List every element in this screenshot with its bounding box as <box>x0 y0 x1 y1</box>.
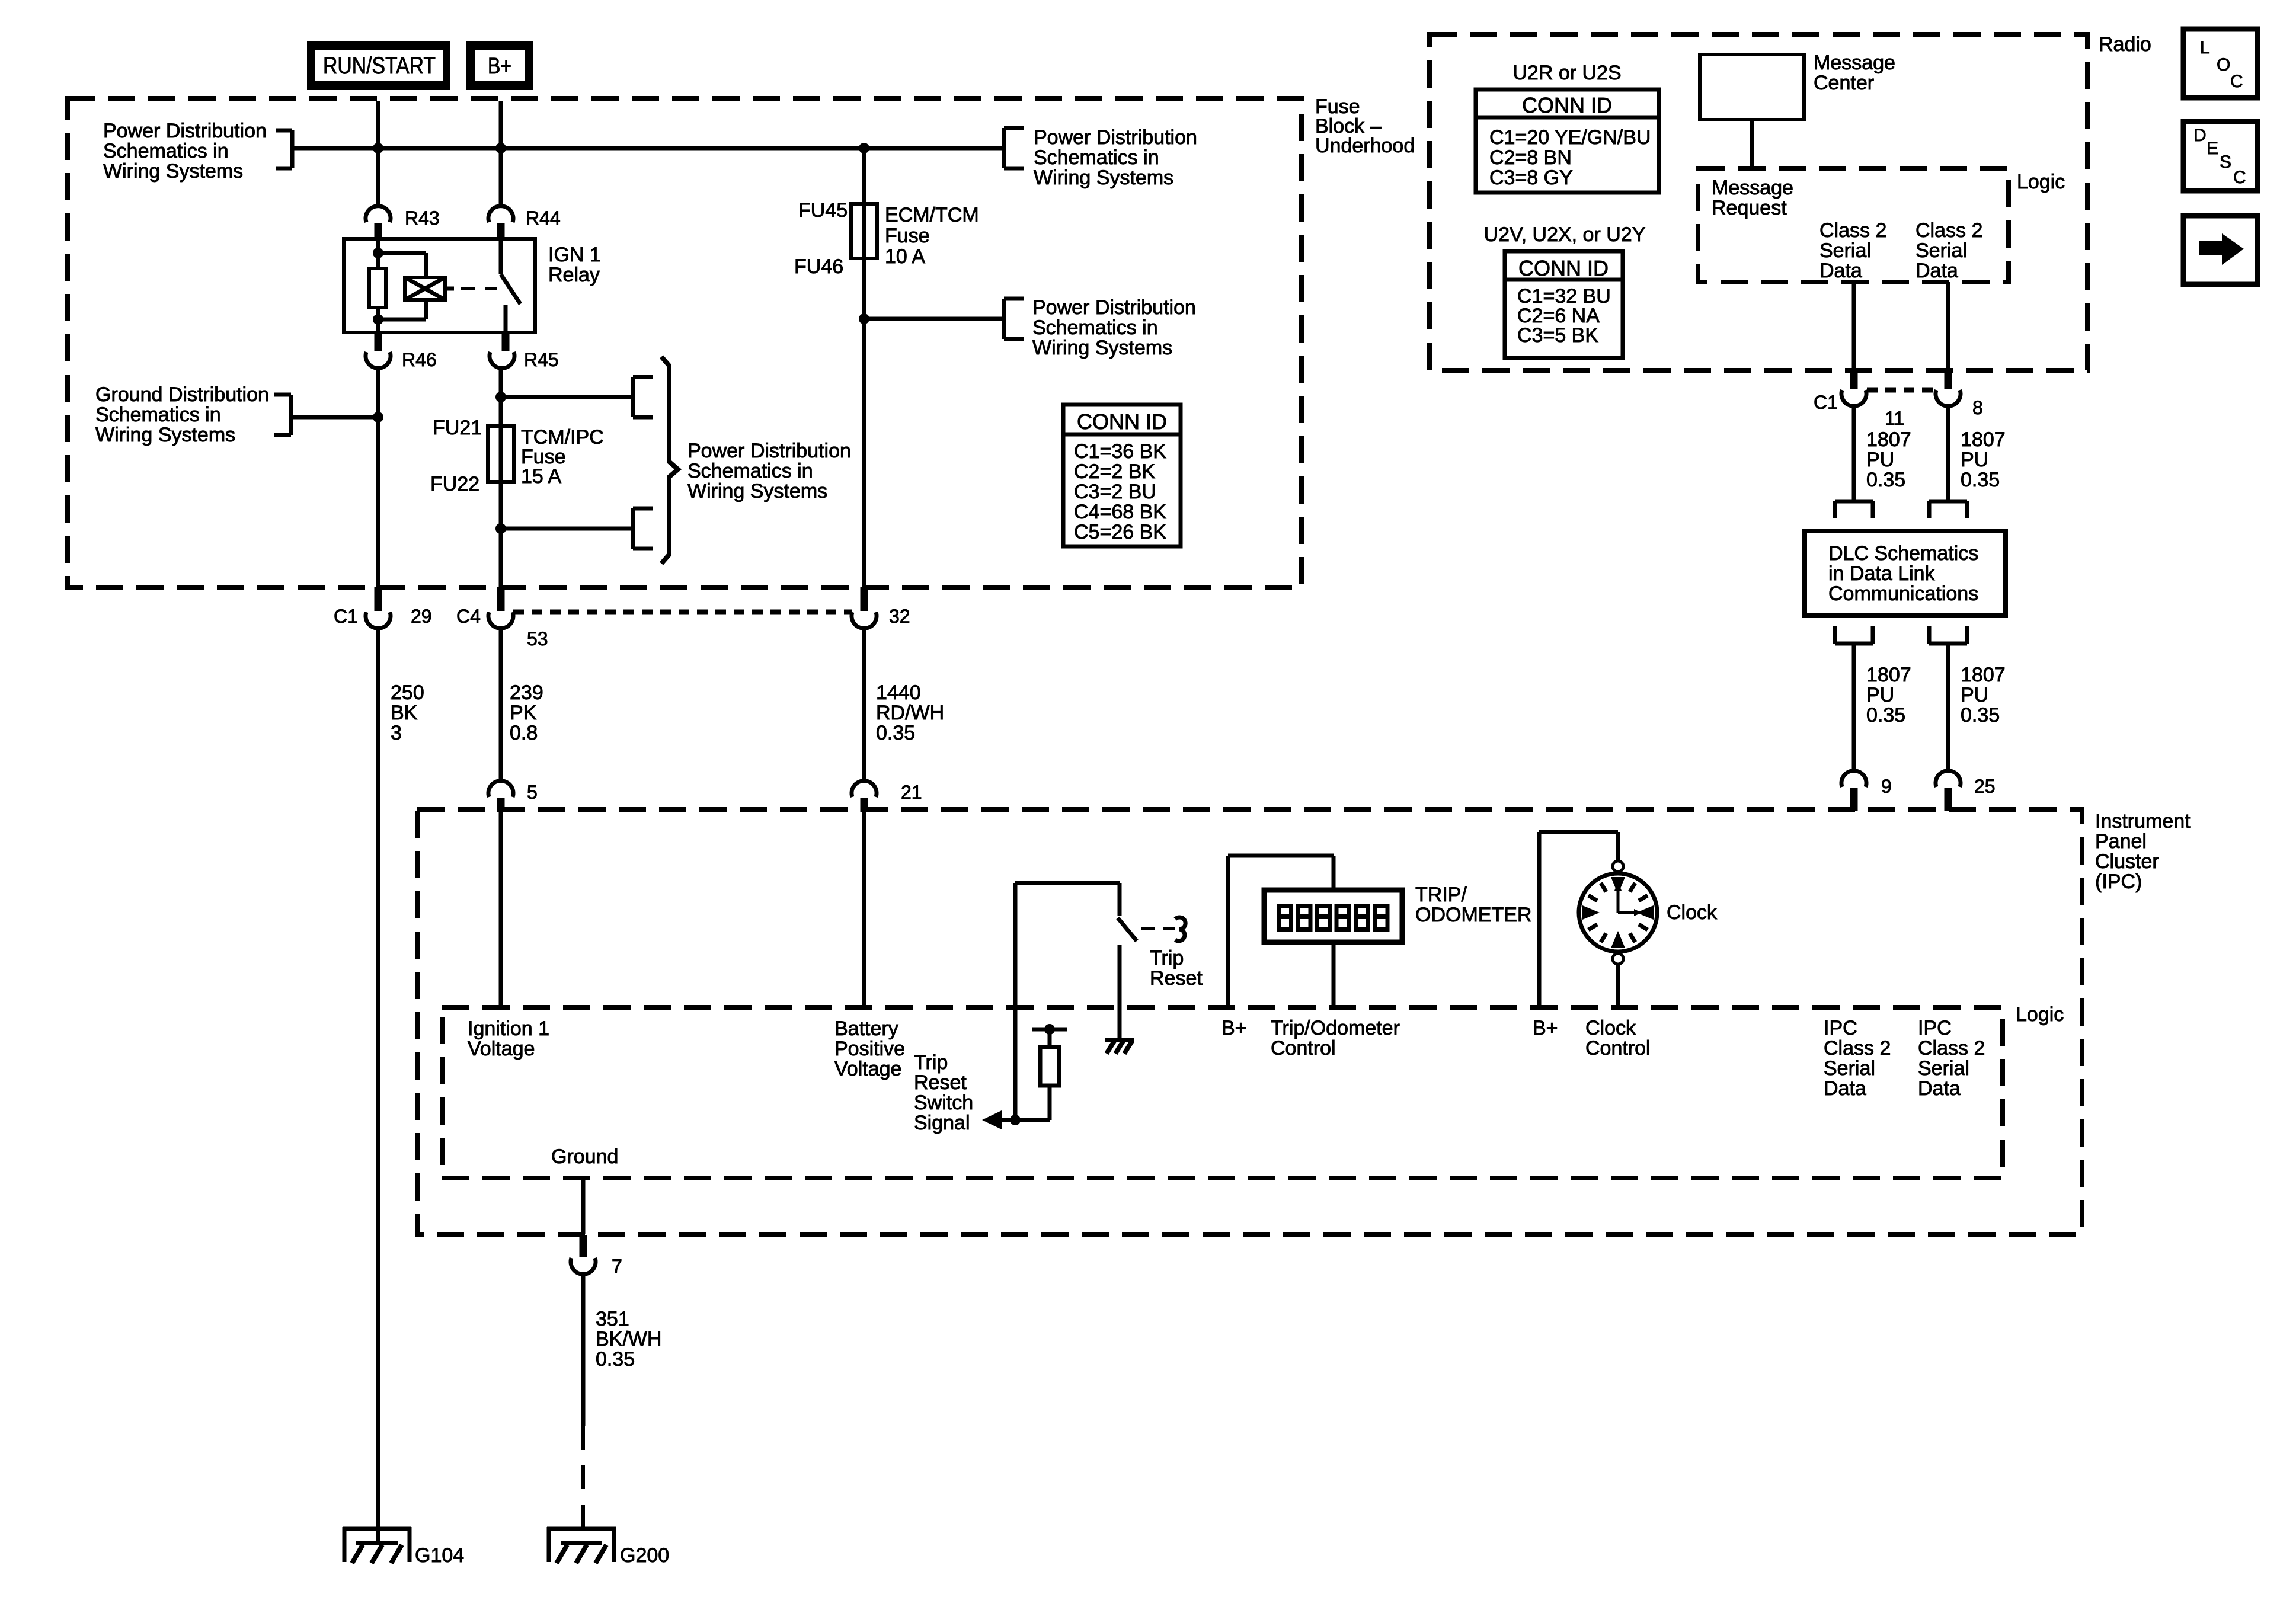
svg-text:Serial: Serial <box>1918 1057 1969 1080</box>
svg-text:C: C <box>2233 168 2246 187</box>
svg-text:Serial: Serial <box>1916 239 1967 262</box>
svg-text:Relay: Relay <box>548 264 600 286</box>
svg-text:IPC: IPC <box>1824 1017 1857 1039</box>
svg-text:G104: G104 <box>415 1544 464 1567</box>
svg-text:Schematics in: Schematics in <box>1034 146 1159 169</box>
svg-text:Positive: Positive <box>834 1038 905 1060</box>
svg-text:U2V, U2X, or U2Y: U2V, U2X, or U2Y <box>1484 223 1646 246</box>
svg-text:1807: 1807 <box>1961 428 2006 451</box>
svg-text:Trip/Odometer: Trip/Odometer <box>1271 1017 1400 1039</box>
svg-text:C1: C1 <box>1814 392 1838 413</box>
svg-text:Trip: Trip <box>914 1051 948 1074</box>
svg-text:Power Distribution: Power Distribution <box>687 440 851 462</box>
svg-text:0.35: 0.35 <box>1866 469 1905 491</box>
svg-text:C2=2 BK: C2=2 BK <box>1074 460 1155 483</box>
svg-text:ECM/TCM: ECM/TCM <box>885 204 979 226</box>
svg-text:Serial: Serial <box>1824 1057 1875 1080</box>
svg-text:Wiring Systems: Wiring Systems <box>95 424 235 446</box>
svg-text:239: 239 <box>510 681 543 704</box>
svg-text:D: D <box>2193 126 2207 145</box>
svg-text:1807: 1807 <box>1866 664 1911 686</box>
svg-text:IPC: IPC <box>1918 1017 1952 1039</box>
svg-text:9: 9 <box>1881 776 1892 797</box>
svg-text:Fuse: Fuse <box>885 225 930 247</box>
svg-text:FU46: FU46 <box>794 255 843 278</box>
svg-text:G200: G200 <box>620 1544 669 1567</box>
svg-text:Schematics in: Schematics in <box>1032 316 1158 339</box>
svg-text:Trip: Trip <box>1150 947 1184 969</box>
svg-text:Communications: Communications <box>1828 582 1978 605</box>
svg-text:5: 5 <box>527 782 538 803</box>
svg-text:21: 21 <box>901 782 922 803</box>
svg-text:R45: R45 <box>524 349 559 370</box>
svg-text:Class 2: Class 2 <box>1819 219 1886 242</box>
svg-text:C1=36 BK: C1=36 BK <box>1074 440 1166 463</box>
svg-text:C5=26 BK: C5=26 BK <box>1074 521 1166 543</box>
svg-text:RD/WH: RD/WH <box>876 702 944 724</box>
svg-text:351: 351 <box>596 1308 629 1330</box>
svg-text:Request: Request <box>1712 197 1787 219</box>
svg-text:PU: PU <box>1866 449 1894 471</box>
svg-text:Control: Control <box>1585 1037 1651 1060</box>
svg-text:Power Distribution: Power Distribution <box>1032 296 1196 319</box>
svg-text:15 A: 15 A <box>521 465 561 488</box>
svg-text:Serial: Serial <box>1819 239 1871 262</box>
svg-text:FU45: FU45 <box>798 199 848 222</box>
svg-text:Reset: Reset <box>914 1071 967 1094</box>
svg-text:S: S <box>2220 152 2231 172</box>
svg-text:1807: 1807 <box>1961 664 2006 686</box>
svg-text:C3=8 GY: C3=8 GY <box>1489 167 1573 189</box>
svg-text:Battery: Battery <box>834 1017 898 1040</box>
svg-text:in Data Link: in Data Link <box>1828 562 1936 585</box>
svg-text:Radio: Radio <box>2099 33 2151 56</box>
svg-text:C1: C1 <box>334 606 358 627</box>
svg-text:C3=2 BU: C3=2 BU <box>1074 481 1156 503</box>
svg-text:250: 250 <box>391 681 424 704</box>
svg-text:Wiring Systems: Wiring Systems <box>1034 167 1173 189</box>
svg-text:Ground Distribution: Ground Distribution <box>95 383 269 406</box>
svg-text:Voltage: Voltage <box>834 1058 901 1080</box>
svg-text:Instrument: Instrument <box>2095 810 2191 833</box>
svg-text:Class 2: Class 2 <box>1918 1037 1985 1060</box>
svg-text:0.8: 0.8 <box>510 722 538 744</box>
svg-text:RUN/START: RUN/START <box>323 53 436 79</box>
svg-text:7: 7 <box>612 1256 622 1277</box>
svg-text:C4=68 BK: C4=68 BK <box>1074 501 1166 523</box>
svg-text:Panel: Panel <box>2095 830 2147 853</box>
svg-text:Data: Data <box>1819 260 1862 282</box>
svg-text:1807: 1807 <box>1866 428 1911 451</box>
svg-text:0.35: 0.35 <box>1961 469 2000 491</box>
svg-text:Data: Data <box>1918 1077 1961 1100</box>
svg-text:Power Distribution: Power Distribution <box>1034 126 1197 149</box>
svg-text:Logic: Logic <box>2017 171 2065 193</box>
svg-text:0.35: 0.35 <box>876 722 915 744</box>
svg-text:O: O <box>2217 55 2230 75</box>
svg-text:Message: Message <box>1814 52 1895 74</box>
svg-text:U2R or U2S: U2R or U2S <box>1512 62 1621 84</box>
svg-text:B+: B+ <box>1221 1017 1247 1039</box>
svg-text:Underhood: Underhood <box>1315 135 1415 157</box>
svg-text:BK: BK <box>391 702 418 724</box>
svg-text:Class 2: Class 2 <box>1916 219 1982 242</box>
svg-text:C4: C4 <box>456 606 481 627</box>
svg-text:(IPC): (IPC) <box>2095 870 2142 893</box>
svg-text:PK: PK <box>510 702 537 724</box>
svg-text:Clock: Clock <box>1667 901 1718 924</box>
svg-text:Schematics in: Schematics in <box>103 140 229 162</box>
svg-text:Control: Control <box>1271 1037 1336 1060</box>
svg-text:1440: 1440 <box>876 681 921 704</box>
svg-text:B+: B+ <box>1533 1017 1558 1039</box>
svg-text:ODOMETER: ODOMETER <box>1415 904 1531 926</box>
svg-text:B+: B+ <box>488 54 511 79</box>
svg-text:C1=20 YE/GN/BU: C1=20 YE/GN/BU <box>1489 126 1651 149</box>
svg-text:11: 11 <box>1885 408 1904 429</box>
svg-text:Data: Data <box>1916 260 1958 282</box>
svg-text:Wiring Systems: Wiring Systems <box>687 480 827 502</box>
svg-text:53: 53 <box>527 628 548 649</box>
svg-text:Schematics in: Schematics in <box>687 460 813 482</box>
svg-text:Logic: Logic <box>2016 1003 2064 1026</box>
svg-text:DLC Schematics: DLC Schematics <box>1828 542 1978 565</box>
svg-text:Ground: Ground <box>551 1145 618 1168</box>
svg-text:Cluster: Cluster <box>2095 850 2159 873</box>
svg-text:C2=8 BN: C2=8 BN <box>1489 146 1572 169</box>
svg-text:R44: R44 <box>526 207 561 229</box>
svg-text:0.35: 0.35 <box>596 1348 635 1371</box>
svg-text:FU21: FU21 <box>433 417 482 439</box>
svg-text:8: 8 <box>1972 397 1983 418</box>
svg-text:FU22: FU22 <box>430 473 479 495</box>
svg-text:Voltage: Voltage <box>468 1038 535 1060</box>
svg-text:Reset: Reset <box>1150 967 1203 990</box>
svg-text:IGN 1: IGN 1 <box>548 244 601 266</box>
svg-text:C: C <box>2230 72 2243 91</box>
svg-text:BK/WH: BK/WH <box>596 1328 661 1350</box>
svg-text:32: 32 <box>889 606 910 627</box>
svg-text:Data: Data <box>1824 1077 1866 1100</box>
svg-text:Wiring Systems: Wiring Systems <box>103 160 243 183</box>
svg-text:PU: PU <box>1866 684 1894 706</box>
svg-text:L: L <box>2200 38 2210 57</box>
svg-text:E: E <box>2207 139 2218 158</box>
svg-text:Center: Center <box>1814 72 1874 94</box>
svg-text:PU: PU <box>1961 449 1988 471</box>
svg-text:R43: R43 <box>405 207 440 229</box>
svg-text:Class 2: Class 2 <box>1824 1037 1891 1060</box>
svg-text:Message: Message <box>1712 177 1793 199</box>
svg-text:C3=5 BK: C3=5 BK <box>1517 324 1598 347</box>
svg-text:TRIP/: TRIP/ <box>1415 884 1467 906</box>
svg-text:CONN ID: CONN ID <box>1518 256 1609 280</box>
svg-text:PU: PU <box>1961 684 1988 706</box>
svg-text:CONN ID: CONN ID <box>1077 409 1167 434</box>
svg-text:Ignition 1: Ignition 1 <box>468 1017 549 1040</box>
svg-text:Schematics in: Schematics in <box>95 404 221 426</box>
svg-text:25: 25 <box>1974 776 1996 797</box>
svg-text:Power Distribution: Power Distribution <box>103 120 267 142</box>
svg-text:29: 29 <box>411 606 432 627</box>
svg-text:Wiring Systems: Wiring Systems <box>1032 337 1172 359</box>
svg-text:Signal: Signal <box>914 1112 970 1134</box>
svg-text:0.35: 0.35 <box>1961 704 2000 726</box>
svg-text:CONN ID: CONN ID <box>1522 93 1612 117</box>
svg-text:3: 3 <box>391 722 402 744</box>
svg-text:0.35: 0.35 <box>1866 704 1905 726</box>
svg-text:Switch: Switch <box>914 1092 973 1114</box>
svg-text:R46: R46 <box>402 349 437 370</box>
svg-text:Clock: Clock <box>1585 1017 1636 1039</box>
svg-text:10 A: 10 A <box>885 245 925 268</box>
